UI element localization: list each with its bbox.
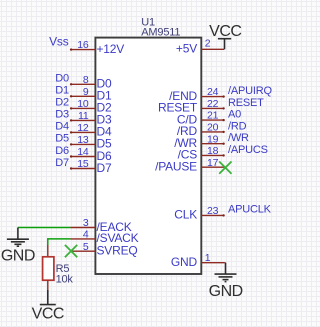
svg-text:AM9511: AM9511: [141, 26, 180, 38]
pin 3 (/EACK): [71, 217, 132, 234]
svg-text:22: 22: [207, 98, 219, 110]
pin 22 (RESET): [158, 98, 225, 115]
pin 14 (D6): [70, 146, 112, 163]
pin 8 (D0): [70, 74, 112, 91]
pin 5 (SVREQ): [71, 241, 138, 258]
svg-text:+12V: +12V: [97, 42, 125, 56]
svg-text:19: 19: [207, 133, 219, 145]
svg-text:/APUIRQ: /APUIRQ: [228, 85, 272, 97]
svg-text:11: 11: [78, 110, 89, 122]
svg-text:20: 20: [207, 122, 219, 134]
resistor R5 10k: [43, 245, 74, 290]
svg-text:APUCLK: APUCLK: [228, 203, 272, 215]
svg-text:5: 5: [83, 241, 89, 253]
svg-text:16: 16: [77, 39, 89, 51]
pin 9 (D1): [70, 86, 112, 103]
pin 23 (CLK): [174, 205, 225, 222]
svg-text:10k: 10k: [56, 274, 74, 286]
svg-text:14: 14: [77, 146, 89, 158]
svg-text:23: 23: [207, 205, 219, 217]
power port VCC (top): [209, 23, 241, 49]
svg-text:+5V: +5V: [176, 42, 197, 56]
svg-text:D6: D6: [55, 145, 69, 157]
pin 11 (D3): [70, 110, 112, 127]
pin 1 (GND): [171, 252, 224, 269]
svg-text:17: 17: [207, 157, 219, 169]
power port VCC (bottom): [32, 290, 64, 323]
svg-text:A0: A0: [228, 109, 241, 121]
pin 17 (/PAUSE): [155, 157, 224, 174]
wire pin4 to R5: [48, 239, 71, 245]
svg-text:/PAUSE: /PAUSE: [155, 160, 197, 174]
svg-text:D7: D7: [55, 157, 69, 169]
svg-text:8: 8: [83, 74, 89, 86]
pin 21 (C/D): [177, 110, 225, 127]
svg-text:GND: GND: [209, 283, 243, 300]
svg-text:D0: D0: [55, 73, 69, 85]
svg-text:18: 18: [207, 145, 219, 157]
svg-text:D7: D7: [97, 161, 112, 175]
svg-text:GND: GND: [171, 255, 198, 269]
svg-text:CLK: CLK: [174, 208, 197, 222]
pin 4 (/SVACK): [71, 229, 139, 246]
svg-text:VCC: VCC: [209, 23, 241, 40]
svg-text:Vss: Vss: [49, 34, 69, 48]
svg-text:15: 15: [77, 158, 89, 170]
svg-text:D1: D1: [55, 85, 69, 97]
svg-text:SVREQ: SVREQ: [97, 244, 138, 258]
svg-text:21: 21: [207, 110, 219, 122]
pin 24 (/END): [169, 86, 225, 103]
pin 19 (/WR): [174, 133, 225, 150]
IC U1 AM9511 body: [95, 38, 201, 274]
pin 20 (/RD): [177, 122, 225, 139]
svg-text:24: 24: [207, 86, 219, 98]
svg-text:D4: D4: [55, 121, 69, 133]
svg-text:1: 1: [205, 252, 211, 264]
power port GND (left): [1, 228, 35, 265]
svg-text:RESET: RESET: [228, 97, 264, 109]
svg-text:/WR: /WR: [228, 132, 249, 144]
svg-text:GND: GND: [1, 247, 35, 264]
svg-text:9: 9: [83, 86, 89, 98]
svg-text:/RD: /RD: [228, 120, 247, 132]
pin 15 (D7): [70, 158, 112, 175]
svg-text:12: 12: [77, 122, 89, 134]
svg-text:10: 10: [77, 98, 89, 110]
svg-text:13: 13: [77, 134, 89, 146]
svg-text:D2: D2: [55, 97, 69, 109]
wire pin3 to GND port: [18, 227, 71, 229]
pin 10 (D2): [70, 98, 112, 115]
svg-text:3: 3: [83, 217, 89, 229]
svg-text:VCC: VCC: [32, 306, 64, 323]
power port GND (bottom right): [209, 263, 243, 300]
svg-text:/APUCS: /APUCS: [228, 144, 268, 156]
pin 13 (D5): [70, 134, 112, 151]
pin 18 (/CS): [178, 145, 225, 162]
svg-text:D5: D5: [55, 133, 69, 145]
svg-text:4: 4: [83, 229, 89, 241]
svg-text:D3: D3: [55, 109, 69, 121]
pin 12 (D4): [70, 122, 112, 139]
pin 2 (+5V): [176, 38, 224, 56]
pin 16 (+12V): [70, 39, 124, 56]
no-ERC marker X on pin 5: [65, 245, 77, 257]
no-ERC marker X on pin 17: [219, 162, 231, 174]
